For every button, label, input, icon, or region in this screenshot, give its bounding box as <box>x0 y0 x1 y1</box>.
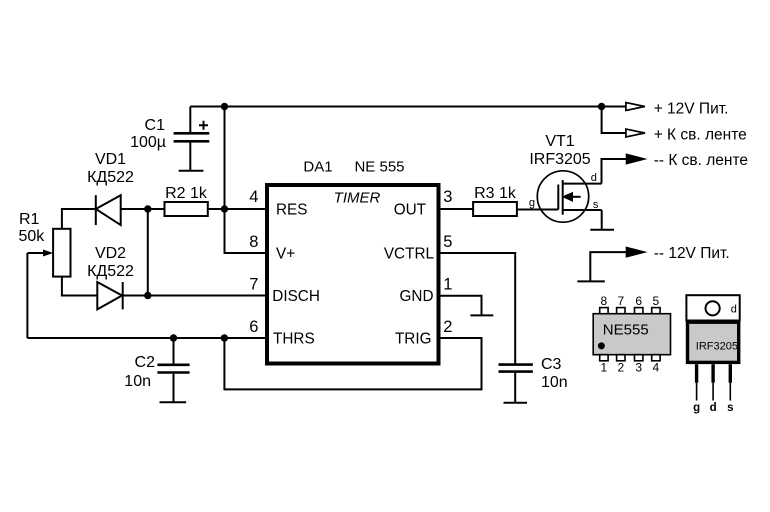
svg-text:R2 1k: R2 1k <box>165 185 208 202</box>
wire diode junction link <box>147 209 149 296</box>
svg-text:8: 8 <box>249 233 258 251</box>
svg-text:1: 1 <box>443 276 452 294</box>
junction VD1 VD2 R2 node <box>144 205 151 212</box>
label C2 <box>124 354 155 390</box>
terminal -К св. ленте <box>626 152 748 169</box>
svg-text:10n: 10n <box>124 373 151 390</box>
svg-text:V+: V+ <box>276 246 295 263</box>
junction VD2 DISCH node <box>144 292 151 299</box>
svg-text:1: 1 <box>601 361 608 375</box>
diode VD2 <box>97 282 122 309</box>
svg-text:КД522: КД522 <box>87 263 134 280</box>
terminal -12V Пит. <box>626 245 730 262</box>
svg-text:TRIG: TRIG <box>395 331 432 348</box>
svg-text:2: 2 <box>617 361 624 375</box>
resistor R3 <box>473 202 517 216</box>
capacitor C2 <box>157 338 189 402</box>
pin 7 DISCH <box>249 276 320 305</box>
pin 3 OUT <box>394 188 453 219</box>
svg-text:g: g <box>529 197 535 209</box>
wire GND pin 1 stub <box>440 296 482 316</box>
NE555 package top pin numbers 8 7 6 5 <box>601 294 660 308</box>
NE555 package bottom pin numbers 1 2 3 4 <box>601 361 660 375</box>
capacitor C3 <box>499 365 533 403</box>
terminal +12V Пит. <box>626 100 729 117</box>
svg-text:DISCH: DISCH <box>272 288 320 305</box>
wire OUT to R3 <box>440 208 473 210</box>
NE555 package top pins <box>600 308 660 314</box>
ground source <box>590 229 614 231</box>
svg-text:7: 7 <box>617 294 624 308</box>
svg-text:VD1: VD1 <box>95 151 126 168</box>
pin 6 THRS <box>249 318 314 348</box>
wire VD2 to DISCH pin 7 <box>123 295 267 297</box>
pin 4 RES <box>249 188 307 219</box>
svg-text:4: 4 <box>653 361 660 375</box>
terminal +К св. ленте <box>626 126 747 143</box>
IRF3205 package leg labels g d s <box>693 402 733 414</box>
wire R3 to gate <box>517 209 558 211</box>
pin 2 TRIG <box>395 318 452 348</box>
svg-text:2: 2 <box>443 318 452 336</box>
svg-text:R3 1k: R3 1k <box>474 185 517 202</box>
transistor VT1 <box>537 171 601 222</box>
wire +K lente branch <box>602 107 627 134</box>
IRF3205 TO-220 package <box>686 295 739 414</box>
svg-text:VD2: VD2 <box>95 245 126 262</box>
svg-text:d: d <box>591 172 597 184</box>
svg-text:6: 6 <box>249 318 258 336</box>
junction top rail to LED feed <box>598 103 605 110</box>
junction top rail to V+ branch <box>221 103 228 110</box>
svg-text:RES: RES <box>276 202 307 219</box>
svg-text:s: s <box>727 402 733 414</box>
wire V+ branch <box>225 107 268 254</box>
svg-text:-- К св. ленте: -- К св. ленте <box>654 152 748 169</box>
svg-text:C2: C2 <box>135 354 156 371</box>
ground GND pin <box>470 314 493 316</box>
label VD2 <box>87 245 134 280</box>
svg-text:C3: C3 <box>541 356 562 373</box>
wire wiper to THRS row <box>26 253 28 338</box>
label VD1 <box>87 151 134 186</box>
timer IC DA1 NE555 <box>267 185 439 364</box>
svg-text:IRF3205: IRF3205 <box>529 151 590 168</box>
wire drain to -K lente <box>602 159 627 184</box>
IRF3205 package hole <box>706 301 720 315</box>
svg-text:VT1: VT1 <box>545 133 574 150</box>
svg-text:THRS: THRS <box>273 331 315 348</box>
svg-text:VCTRL: VCTRL <box>384 246 434 263</box>
svg-text:3: 3 <box>635 361 642 375</box>
svg-text:NE555: NE555 <box>603 322 649 339</box>
NE555 DIP-8 package <box>593 294 670 375</box>
wire THRS row <box>27 337 267 339</box>
diode VD1 <box>96 195 121 225</box>
junction RES row and V+ branch <box>221 205 228 212</box>
NE555 package pin1 dot <box>598 342 605 349</box>
svg-text:6: 6 <box>635 294 642 308</box>
svg-text:GND: GND <box>400 288 434 305</box>
wire pot top to VD1 <box>62 209 95 229</box>
svg-text:-- 12V Пит.: -- 12V Пит. <box>654 245 730 262</box>
pin 1 GND <box>400 276 453 306</box>
svg-text:5: 5 <box>653 294 660 308</box>
ground stub C1 <box>179 170 204 172</box>
IRF3205 package body <box>688 322 739 362</box>
svg-text:NE 555: NE 555 <box>354 159 404 176</box>
svg-text:100µ: 100µ <box>130 134 166 151</box>
svg-text:10n: 10n <box>541 374 568 391</box>
resistor R2 <box>165 202 208 216</box>
wire source to ground <box>601 210 603 230</box>
capacitor C1 <box>174 107 210 171</box>
svg-text:d: d <box>731 304 737 316</box>
wire R2 to RES pin 4 <box>208 208 267 210</box>
svg-text:3: 3 <box>443 188 452 206</box>
wire +12V top rail <box>190 106 626 108</box>
IRF3205 package legs <box>697 364 731 400</box>
svg-text:5: 5 <box>443 233 452 251</box>
svg-text:4: 4 <box>249 188 258 206</box>
pin 8 V+ <box>249 233 295 263</box>
junction THRS TRIG link <box>221 334 228 341</box>
svg-text:DA1: DA1 <box>303 159 332 176</box>
svg-text:КД522: КД522 <box>87 169 134 186</box>
wire VD1 to R2 <box>121 208 165 210</box>
svg-text:g: g <box>693 402 700 414</box>
ground -12V return <box>577 280 604 282</box>
label R1 <box>19 211 46 245</box>
NE555 package bottom pins <box>600 355 660 361</box>
svg-text:+ К св. ленте: + К св. ленте <box>654 126 747 143</box>
svg-text:8: 8 <box>601 294 608 308</box>
svg-text:s: s <box>593 199 599 211</box>
svg-text:IRF3205: IRF3205 <box>696 341 738 353</box>
svg-text:7: 7 <box>249 276 258 294</box>
svg-text:R1: R1 <box>19 211 40 228</box>
IRF3205 package tab <box>686 295 739 320</box>
svg-text:+ 12V Пит.: + 12V Пит. <box>654 100 729 117</box>
svg-text:OUT: OUT <box>394 202 426 219</box>
wire -12V terminal <box>590 252 626 281</box>
pin 5 VCTRL <box>384 233 453 263</box>
wire pot bottom to VD2 <box>62 277 97 296</box>
junction THRS C2 <box>170 334 177 341</box>
svg-text:TIMER: TIMER <box>334 189 381 206</box>
svg-text:d: d <box>710 402 717 414</box>
wire VCTRL to C3 <box>440 253 515 363</box>
ground stub C2 <box>160 401 187 403</box>
wire THRS to TRIG loop <box>224 338 481 389</box>
svg-text:50k: 50k <box>19 228 46 245</box>
ground stub C3 <box>504 402 528 404</box>
label C3 <box>541 356 568 391</box>
label C1 <box>130 117 166 151</box>
svg-text:C1: C1 <box>145 117 166 134</box>
NE555 package body <box>593 314 670 355</box>
label VT1 <box>529 133 590 168</box>
potentiometer R1 <box>27 229 70 277</box>
